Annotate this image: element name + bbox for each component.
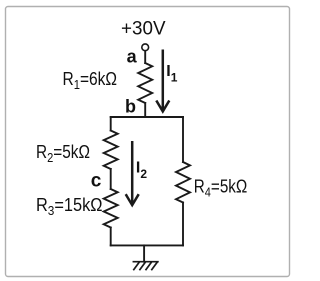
wire terminal to R1 (144, 51, 146, 63)
svg-text:+30V: +30V (121, 18, 166, 39)
resistor R4 (176, 162, 190, 203)
ground (133, 262, 158, 270)
node a supply terminal (142, 44, 149, 51)
svg-text:R1=6kΩ: R1=6kΩ (63, 69, 118, 92)
svg-text:R4=5kΩ: R4=5kΩ (194, 177, 248, 200)
svg-text:R2=5kΩ: R2=5kΩ (36, 142, 90, 165)
wire top of mesh (111, 116, 183, 118)
wire R1 to node b (144, 103, 146, 117)
wire top to R4 (182, 117, 184, 162)
svg-text:R3=15kΩ: R3=15kΩ (36, 195, 103, 218)
wire R4 to bottom (182, 203, 184, 246)
current arrow I1 (156, 50, 169, 112)
resistor R3 (104, 189, 118, 228)
wire R3 to bottom (110, 228, 112, 246)
resistor R2 (104, 131, 118, 170)
current arrow I2 (126, 141, 139, 205)
svg-text:c: c (91, 171, 102, 192)
wire ground stub (143, 245, 145, 261)
resistor R1 (138, 63, 152, 103)
wire node b to R2 (110, 117, 112, 131)
wire node c (110, 169, 112, 189)
wire bottom of mesh (111, 244, 183, 246)
svg-text:a: a (127, 46, 138, 66)
svg-text:b: b (125, 97, 136, 117)
